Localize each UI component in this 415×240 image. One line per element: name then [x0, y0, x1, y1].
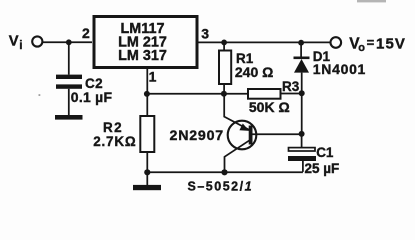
- base bar: [249, 126, 253, 145]
- svg-text:S–5052/1: S–5052/1: [188, 179, 254, 193]
- diode D1: [300, 43, 302, 57]
- node input/C2 junction: [66, 39, 72, 45]
- scan artifact grey bar top right: [357, 0, 386, 2]
- svg-text:o: o: [358, 42, 365, 54]
- resistor R2: [146, 94, 148, 116]
- svg-text:C1: C1: [316, 145, 334, 160]
- terminal Vi: [32, 36, 42, 46]
- wire input rail: [43, 41, 92, 43]
- svg-text:15V: 15V: [376, 36, 406, 53]
- svg-text:V: V: [9, 34, 19, 50]
- svg-text:240 Ω: 240 Ω: [235, 64, 273, 80]
- svg-text:R3: R3: [282, 79, 300, 94]
- svg-text:2N2907: 2N2907: [170, 128, 225, 144]
- emitter arrow: [239, 124, 249, 131]
- wire R3 right to D1 node: [281, 93, 302, 95]
- scan speck: [39, 94, 41, 96]
- capacitor C1: [301, 134, 303, 148]
- wire pin1 lead: [146, 68, 148, 94]
- terminal Vo: [331, 37, 342, 48]
- resistor R1: [223, 42, 225, 50]
- svg-text:2.7KΩ: 2.7KΩ: [93, 134, 136, 149]
- node D1 top: [298, 40, 304, 46]
- node pin1/R2: [144, 91, 150, 97]
- wire output rail: [199, 41, 331, 43]
- base wire to node: [253, 133, 302, 135]
- emitter wire (to adjust rail): [224, 94, 249, 130]
- ground (main): [146, 172, 148, 185]
- svg-text:LM 317: LM 317: [118, 48, 167, 64]
- node R1 bottom / emitter: [221, 91, 227, 97]
- capacitor C2: [56, 75, 82, 89]
- transistor Q1 2N2907: [228, 121, 257, 150]
- wire ground rail: [147, 171, 303, 173]
- op-amp U1 regulator box LM117/LM217/LM317: [94, 17, 197, 68]
- wire C2 stem upper: [68, 42, 70, 74]
- wire C2 stem lower: [68, 89, 70, 115]
- node base / C1: [299, 131, 305, 137]
- svg-text:R2: R2: [103, 120, 123, 135]
- node D1 anode / base wire: [299, 90, 305, 96]
- svg-text:1N4001: 1N4001: [313, 61, 366, 77]
- svg-text:3: 3: [201, 25, 209, 41]
- svg-text:=: =: [367, 35, 375, 50]
- svg-text:i: i: [19, 40, 22, 52]
- resistor R3: [248, 89, 281, 99]
- wire D1 node down to base node: [301, 93, 303, 134]
- svg-text:0.1 µF: 0.1 µF: [71, 89, 113, 105]
- svg-text:1: 1: [149, 69, 157, 85]
- svg-text:25 µF: 25 µF: [305, 161, 340, 176]
- collector wire (to ground rail): [225, 140, 250, 172]
- wire adjust rail: [147, 93, 248, 95]
- svg-text:50K Ω: 50K Ω: [249, 99, 290, 115]
- ground (C2): [55, 115, 83, 120]
- node R1 top: [221, 40, 227, 46]
- node R2 bottom / ground: [144, 169, 150, 175]
- svg-text:2: 2: [82, 25, 90, 41]
- node collector: [221, 169, 227, 175]
